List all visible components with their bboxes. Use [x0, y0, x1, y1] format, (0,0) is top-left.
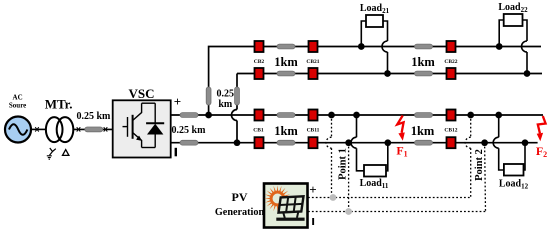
IGBT inside VSC [123, 103, 156, 147]
label 1km feeder2 right [411, 55, 435, 69]
svg-text:0.25: 0.25 [217, 89, 235, 100]
dashed wire PV negative [308, 211, 486, 213]
node Point2 tap on feeder1 bottom [481, 139, 488, 146]
label CB12 [444, 128, 457, 134]
PV panel [276, 196, 304, 221]
load Load11 [351, 115, 389, 190]
node Point1 tap on feeder1 top [328, 112, 335, 119]
PV generator box [264, 184, 308, 228]
svg-text:Load21: Load21 [360, 3, 390, 15]
svg-text:0.25 km: 0.25 km [76, 111, 111, 122]
label 1km feeder2 left [274, 55, 298, 69]
breaker CB12 bottom [447, 137, 456, 148]
svg-text:+: + [309, 182, 316, 197]
PV minus terminal [312, 218, 314, 225]
dashed wire PV positive [308, 197, 471, 199]
feeder1 top pole wire [171, 114, 543, 116]
grounded wye symbol [47, 148, 56, 159]
PV sun [264, 185, 291, 212]
svg-text:CB22: CB22 [444, 59, 457, 65]
VSC plus terminal [174, 94, 181, 109]
label CB22 [444, 59, 457, 65]
node gray Point1 negative junction [345, 208, 352, 215]
node Point2 tap on feeder1 top [467, 112, 474, 119]
fault F2 lightning [536, 116, 547, 159]
breaker CB2 top [255, 41, 264, 52]
svg-text:Load11: Load11 [360, 178, 389, 190]
svg-text:1km: 1km [274, 55, 298, 69]
load Load12 [493, 115, 528, 191]
label Point 2 [474, 149, 485, 181]
label 1km feeder1 right [411, 124, 435, 138]
wire transformer to VSC [73, 127, 112, 131]
svg-text:+: + [174, 94, 181, 109]
svg-text:MTr.: MTr. [45, 97, 73, 112]
breaker CB21 top [309, 41, 318, 52]
cable segment 0.25 km (AC side) [76, 111, 111, 132]
label CB1 [253, 128, 264, 134]
delta symbol [63, 150, 69, 156]
svg-text:km: km [218, 99, 233, 110]
node Load22 left on feeder2 top [496, 43, 503, 50]
svg-text:1km: 1km [411, 55, 435, 69]
breaker CB2 bottom [255, 68, 264, 79]
wire source to transformer [31, 127, 46, 131]
diode inside VSC [146, 103, 164, 147]
Point 1 dotted tap right [348, 143, 350, 212]
AC source [5, 94, 31, 143]
svg-text:Load12: Load12 [499, 179, 529, 191]
cable 1km feeder2 left bottom [277, 71, 295, 76]
VSC minus terminal [175, 148, 177, 157]
cable 1km feeder1 right top [415, 113, 433, 118]
breaker CB1 top [255, 110, 264, 121]
cable 1km feeder1 left bottom [277, 140, 295, 145]
breaker CB11 top [309, 110, 318, 121]
breaker CB12 top [447, 110, 456, 121]
svg-text:CB11: CB11 [307, 128, 320, 134]
svg-text:1km: 1km [274, 124, 298, 138]
node Load21 left on feeder2 top [358, 43, 365, 50]
svg-text:Generation: Generation [215, 207, 265, 218]
node riser left on feeder1 top [205, 112, 212, 119]
label CB21 [306, 59, 319, 65]
breaker CB22 bottom [447, 68, 456, 79]
Point 1 dotted tap left [326, 115, 332, 198]
load Load22 [498, 2, 528, 74]
cable 1km feeder2 right top [415, 44, 433, 49]
riser cable right (negative pole to feeder2) with hop [232, 74, 543, 143]
breaker CB1 bottom [255, 137, 264, 148]
Point 2 dotted tap left [465, 115, 470, 198]
node Load11 right on feeder1 bottom [384, 139, 391, 146]
node Load12 left on feeder1 top [495, 112, 502, 119]
node riser right on feeder1 bottom [234, 139, 241, 146]
cable 0.25 km on VSC outputs [172, 113, 207, 146]
svg-text:0.25 km: 0.25 km [172, 125, 207, 136]
cable 1km feeder1 left top [277, 113, 295, 118]
svg-text:Point 2: Point 2 [474, 149, 485, 181]
fault F1 lightning [396, 116, 407, 159]
Point 2 dotted tap right [484, 143, 487, 212]
svg-text:CB21: CB21 [306, 59, 319, 65]
node Load21 right on feeder2 bottom [384, 70, 391, 77]
label CB11 [307, 128, 320, 134]
svg-text:PV: PV [232, 190, 248, 204]
svg-text:1km: 1km [411, 124, 435, 138]
svg-text:CB2: CB2 [254, 59, 265, 65]
node Load12 right on feeder1 bottom [522, 139, 529, 146]
label 0.25 km riser [217, 89, 235, 111]
label CB2 [254, 59, 265, 65]
cable 1km feeder2 left top [277, 44, 295, 49]
transformer MTr. [45, 97, 74, 143]
riser cable left (positive pole to feeder2) [206, 47, 541, 116]
feeder1 bottom pole wire [171, 142, 538, 144]
node Load22 right on feeder2 bottom [524, 70, 531, 77]
breaker CB11 bottom [309, 137, 318, 148]
node gray Point1 positive junction [330, 194, 337, 201]
cable 1km feeder1 right bottom [415, 140, 433, 145]
svg-text:Point 1: Point 1 [338, 148, 349, 180]
svg-text:F2: F2 [536, 144, 547, 159]
load Load21 [360, 3, 390, 74]
breaker CB22 top [447, 41, 456, 52]
label 1km feeder1 left [274, 124, 298, 138]
svg-text:CB1: CB1 [253, 128, 264, 134]
svg-text:Load22: Load22 [498, 2, 528, 14]
label PV Generation [215, 190, 265, 218]
svg-text:Soure: Soure [9, 102, 26, 110]
PV plus terminal [309, 182, 316, 197]
node Point1 tap on feeder1 bottom [345, 139, 352, 146]
svg-text:CB12: CB12 [444, 128, 457, 134]
svg-text:F1: F1 [396, 144, 407, 159]
breaker CB21 bottom [309, 68, 318, 79]
VSC converter box [113, 86, 171, 158]
label Point 1 [338, 148, 349, 180]
cable 1km feeder2 right bottom [415, 71, 433, 76]
node Load11 left on feeder1 top [353, 112, 360, 119]
svg-text:VSC: VSC [128, 86, 154, 101]
svg-text:AC: AC [13, 94, 23, 102]
